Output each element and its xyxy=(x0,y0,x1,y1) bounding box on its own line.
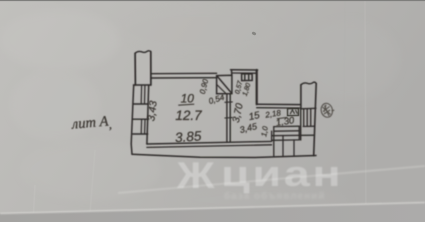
watermark cian xyxy=(176,153,343,196)
top scan edge xyxy=(0,0,425,1)
bottom paper edge and backing xyxy=(0,203,425,223)
fraction bar xyxy=(277,117,287,118)
svg-text:3.85: 3.85 xyxy=(175,128,203,145)
door circle mark xyxy=(320,102,334,118)
scan speck xyxy=(251,31,256,36)
window sill right pier xyxy=(301,107,316,110)
pier left (wall pier with break line, top-left) xyxy=(135,51,151,85)
stair tread line 2 xyxy=(274,130,299,132)
wall left inner edge xyxy=(147,85,149,144)
svg-text:циан: циан xyxy=(221,153,343,194)
window W3 hatch xyxy=(304,109,311,126)
stair divider 1 xyxy=(282,136,284,156)
wall left of stair landing xyxy=(300,109,302,140)
door jamb tick upper xyxy=(225,101,232,103)
window W3 bottom line xyxy=(303,125,314,127)
svg-text:Ж: Ж xyxy=(176,155,215,196)
floor wall room10 (double line) xyxy=(147,141,272,144)
wall top right section (double line) xyxy=(257,103,301,105)
stair tread line 3 xyxy=(272,134,315,137)
svg-text:база объявлений: база объявлений xyxy=(224,190,325,202)
window W1 glazing xyxy=(141,86,145,103)
watermark subtitle xyxy=(224,190,325,202)
stair divider 2 xyxy=(293,140,295,156)
fold crease xyxy=(118,166,425,193)
paper streaks xyxy=(33,0,366,222)
svg-text:3,43: 3,43 xyxy=(145,100,159,122)
wall left outer edge xyxy=(131,85,134,154)
electric panel box symbol xyxy=(287,108,298,116)
window sill lines left wall xyxy=(134,84,151,86)
stair right edge xyxy=(298,126,300,140)
svg-text:10: 10 xyxy=(181,91,195,105)
stair tread line 1 xyxy=(274,125,299,127)
partition wall room10/corridor (double line) xyxy=(226,94,228,142)
flue box small xyxy=(242,74,253,81)
outer bottom wall xyxy=(132,154,316,157)
svg-text:12.7: 12.7 xyxy=(175,108,202,123)
wall top of room 10 (double line) xyxy=(151,72,217,74)
vent shaft box with diagonal xyxy=(217,70,232,94)
stair left edge 2 xyxy=(271,131,273,140)
stair left edge xyxy=(273,127,275,156)
wall step down right of corridor xyxy=(256,70,258,104)
window W2 glazing xyxy=(141,120,145,133)
underline under 10 xyxy=(178,104,194,105)
stair tread line 4 xyxy=(272,139,300,141)
door jamb tick lower xyxy=(225,117,232,119)
wall top of corridor (double line) xyxy=(231,69,258,71)
pier right (wall pier with break line) xyxy=(301,82,316,156)
